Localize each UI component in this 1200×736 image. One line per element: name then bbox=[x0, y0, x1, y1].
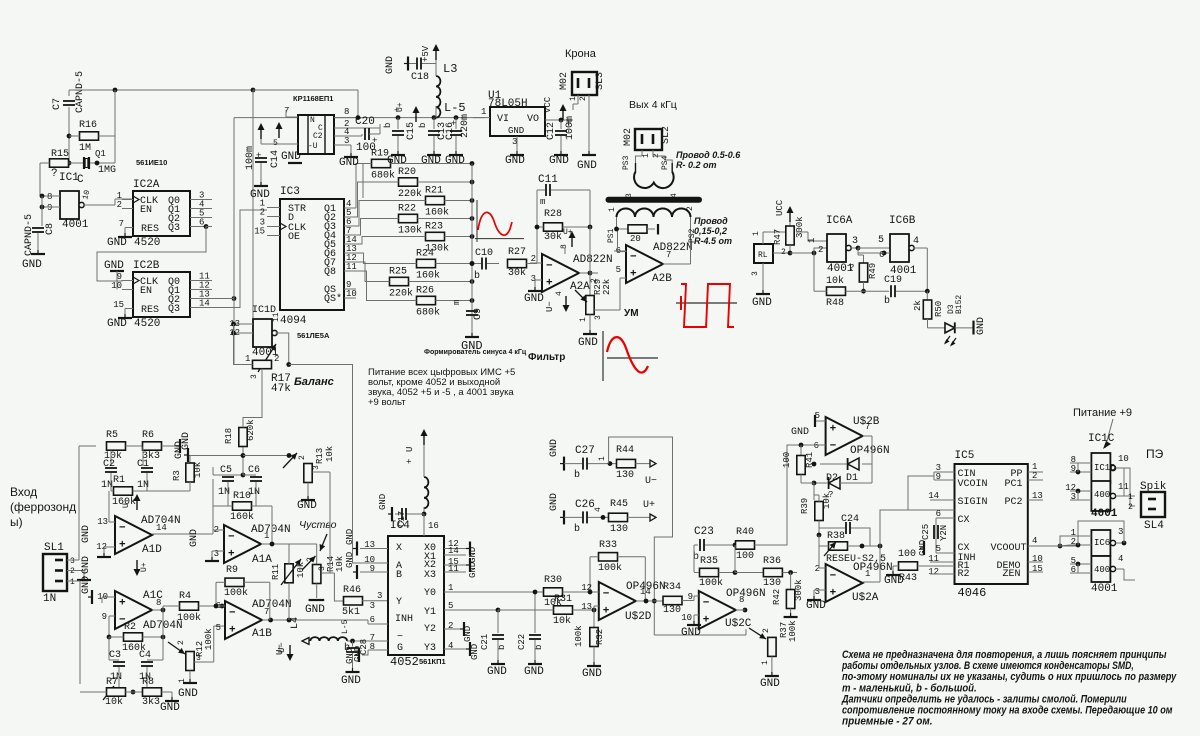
svg-text:2: 2 bbox=[70, 567, 75, 576]
svg-text:GND: GND bbox=[181, 432, 192, 450]
svg-text:VCC: VCC bbox=[543, 96, 553, 113]
svg-text:4: 4 bbox=[1118, 554, 1123, 564]
svg-text:IC1C: IC1C bbox=[1088, 433, 1115, 445]
svg-text:U$2C: U$2C bbox=[725, 618, 752, 630]
svg-text:10k: 10k bbox=[296, 562, 306, 578]
svg-text:R23: R23 bbox=[425, 222, 443, 233]
svg-text:Фильтр: Фильтр bbox=[528, 352, 565, 363]
svg-text:IC6B: IC6B bbox=[889, 215, 916, 227]
svg-text:5: 5 bbox=[616, 265, 621, 275]
svg-text:4052: 4052 bbox=[390, 655, 419, 669]
svg-text:L3: L3 bbox=[443, 62, 457, 76]
svg-text:−: − bbox=[397, 632, 403, 643]
svg-text:1: 1 bbox=[752, 231, 761, 236]
svg-text:C5: C5 bbox=[220, 465, 232, 476]
svg-text:3: 3 bbox=[625, 193, 634, 198]
svg-text:УМ: УМ bbox=[624, 308, 639, 319]
svg-text:D2: D2 bbox=[826, 473, 838, 484]
svg-text:C3: C3 bbox=[109, 650, 121, 661]
svg-text:EN: EN bbox=[140, 286, 152, 297]
svg-text:2: 2 bbox=[762, 628, 771, 633]
svg-text:КР1168ЕП1: КР1168ЕП1 bbox=[293, 94, 333, 103]
svg-text:100k: 100k bbox=[574, 625, 584, 647]
svg-text:Питание +9: Питание +9 bbox=[1073, 407, 1132, 419]
svg-text:GND: GND bbox=[470, 644, 480, 660]
svg-text:10k: 10k bbox=[105, 696, 123, 708]
svg-text:GND: GND bbox=[463, 626, 473, 642]
svg-text:R5: R5 bbox=[106, 430, 118, 441]
svg-text:GND: GND bbox=[160, 702, 180, 714]
svg-text:+: + bbox=[603, 605, 610, 617]
svg-text:?: ? bbox=[51, 168, 58, 180]
svg-text:300k: 300k bbox=[794, 579, 804, 601]
svg-text:+: + bbox=[256, 151, 261, 161]
svg-text:R3: R3 bbox=[172, 470, 182, 481]
svg-text:3: 3 bbox=[370, 601, 375, 611]
svg-text:C2: C2 bbox=[313, 132, 323, 141]
svg-text:R48: R48 bbox=[826, 298, 844, 309]
svg-text:C26: C26 bbox=[575, 499, 595, 511]
svg-text:U−: U− bbox=[645, 476, 657, 487]
svg-text:2: 2 bbox=[117, 200, 122, 210]
svg-text:Чуство: Чуство bbox=[299, 519, 337, 531]
svg-text:R27: R27 bbox=[508, 247, 526, 258]
svg-text:RES: RES bbox=[141, 305, 159, 316]
svg-text:GND: GND bbox=[421, 155, 441, 167]
svg-text:3: 3 bbox=[751, 271, 760, 276]
svg-text:C27: C27 bbox=[575, 445, 595, 457]
svg-text:GND: GND bbox=[752, 297, 772, 309]
svg-text:R35: R35 bbox=[700, 556, 718, 567]
svg-text:GND: GND bbox=[250, 189, 270, 201]
svg-text:QS*: QS* bbox=[324, 293, 342, 305]
svg-text:?: ? bbox=[849, 263, 854, 273]
svg-text:5: 5 bbox=[216, 623, 221, 633]
svg-text:C2: C2 bbox=[103, 459, 115, 470]
svg-text:R18: R18 bbox=[224, 428, 234, 444]
svg-text:4046: 4046 bbox=[958, 586, 987, 600]
svg-text:30k: 30k bbox=[508, 267, 526, 279]
svg-text:1: 1 bbox=[579, 317, 588, 322]
svg-text:GND: GND bbox=[81, 556, 92, 574]
svg-text:2: 2 bbox=[1128, 503, 1133, 512]
svg-text:C21: C21 bbox=[480, 634, 490, 650]
svg-text:GND: GND bbox=[345, 529, 355, 545]
svg-text:N: N bbox=[310, 116, 315, 125]
svg-text:1: 1 bbox=[807, 238, 817, 243]
svg-text:2: 2 bbox=[298, 455, 307, 460]
svg-text:4001: 4001 bbox=[62, 219, 89, 231]
svg-text:b: b bbox=[474, 270, 480, 282]
svg-text:4: 4 bbox=[555, 291, 564, 296]
svg-text:b: b bbox=[574, 469, 580, 481]
svg-text:100k: 100k bbox=[598, 562, 622, 574]
svg-text:13: 13 bbox=[581, 602, 592, 612]
svg-text:400: 400 bbox=[1094, 565, 1110, 575]
svg-text:Вых 4 кГц: Вых 4 кГц bbox=[629, 99, 677, 111]
svg-text:AD822N: AD822N bbox=[653, 242, 693, 254]
svg-text:561КП1: 561КП1 bbox=[419, 657, 446, 666]
svg-text:ZEN: ZEN bbox=[1003, 569, 1021, 580]
svg-text:CAPND-5: CAPND-5 bbox=[24, 214, 35, 256]
svg-text:10: 10 bbox=[1118, 454, 1129, 464]
svg-text:C25: C25 bbox=[921, 524, 931, 540]
svg-text:+: + bbox=[830, 587, 837, 599]
svg-text:Провод: Провод bbox=[694, 216, 728, 226]
svg-text:C9: C9 bbox=[473, 308, 484, 320]
svg-text:220k: 220k bbox=[389, 288, 413, 300]
svg-text:22k: 22k bbox=[602, 279, 612, 295]
svg-text:GND: GND bbox=[305, 604, 325, 616]
svg-text:−: − bbox=[229, 608, 236, 620]
svg-text:b: b bbox=[884, 295, 890, 307]
svg-text:R36: R36 bbox=[763, 556, 781, 567]
svg-text:30k: 30k bbox=[544, 231, 562, 243]
svg-text:B152: B152 bbox=[955, 295, 964, 314]
svg-text:GND: GND bbox=[468, 547, 478, 563]
svg-text:561ИЕ10: 561ИЕ10 bbox=[136, 158, 167, 167]
svg-text:m: m bbox=[452, 300, 462, 305]
svg-text:R46: R46 bbox=[343, 585, 361, 596]
svg-text:GND: GND bbox=[385, 56, 396, 74]
svg-text:1: 1 bbox=[569, 96, 578, 101]
svg-text:10: 10 bbox=[681, 613, 692, 623]
svg-text:IC6: IC6 bbox=[1094, 538, 1110, 548]
svg-text:3: 3 bbox=[594, 315, 603, 320]
svg-text:R7: R7 bbox=[106, 677, 118, 688]
svg-text:R31: R31 bbox=[554, 594, 572, 605]
svg-text:R33: R33 bbox=[599, 540, 617, 551]
svg-text:9: 9 bbox=[102, 612, 107, 622]
svg-text:Вход: Вход bbox=[10, 485, 37, 499]
svg-text:1M: 1M bbox=[79, 143, 91, 154]
svg-text:IC5: IC5 bbox=[955, 450, 975, 462]
svg-text:2: 2 bbox=[818, 245, 823, 255]
svg-text:1: 1 bbox=[598, 456, 607, 461]
svg-text:100k: 100k bbox=[788, 620, 798, 642]
svg-text:R4: R4 bbox=[179, 591, 191, 602]
svg-text:1N: 1N bbox=[43, 593, 56, 605]
svg-text:A2B: A2B bbox=[652, 273, 672, 285]
svg-text:8: 8 bbox=[344, 107, 349, 117]
svg-text:2: 2 bbox=[306, 557, 315, 562]
svg-text:U+: U+ bbox=[396, 102, 405, 112]
svg-text:U+: U+ bbox=[140, 562, 149, 572]
svg-text:16: 16 bbox=[428, 521, 439, 531]
svg-text:SL2: SL2 bbox=[661, 126, 672, 144]
svg-text:+: + bbox=[546, 277, 553, 289]
svg-text:C8: C8 bbox=[45, 223, 56, 235]
svg-text:−: − bbox=[703, 598, 710, 610]
svg-text:2: 2 bbox=[590, 278, 599, 283]
svg-text:R- 0.2 от: R- 0.2 от bbox=[676, 160, 717, 170]
svg-text:A1A: A1A bbox=[252, 554, 272, 566]
svg-text:VI: VI bbox=[497, 114, 509, 125]
svg-text:−: − bbox=[630, 252, 637, 264]
svg-text:C24: C24 bbox=[841, 514, 859, 525]
svg-text:12: 12 bbox=[928, 567, 939, 577]
svg-text:Q1: Q1 bbox=[95, 149, 106, 159]
svg-text:14: 14 bbox=[640, 587, 651, 597]
svg-text:0,15-0,2: 0,15-0,2 bbox=[694, 226, 727, 236]
svg-text:2: 2 bbox=[579, 96, 588, 101]
svg-text:680k: 680k bbox=[416, 307, 440, 319]
svg-text:3: 3 bbox=[1118, 527, 1123, 537]
svg-text:160k: 160k bbox=[230, 511, 254, 523]
svg-text:C17: C17 bbox=[397, 511, 407, 527]
svg-text:GND: GND bbox=[378, 494, 388, 510]
svg-text:U−: U− bbox=[277, 642, 287, 653]
svg-text:VCOIN: VCOIN bbox=[958, 479, 988, 490]
svg-text:1: 1 bbox=[245, 354, 250, 364]
svg-text:IC3: IC3 bbox=[280, 186, 300, 198]
svg-text:7: 7 bbox=[119, 219, 124, 229]
svg-text:2: 2 bbox=[686, 206, 695, 211]
svg-text:13: 13 bbox=[97, 517, 108, 527]
svg-text:C11: C11 bbox=[538, 174, 558, 186]
svg-text:U−: U− bbox=[545, 301, 555, 312]
svg-text:160k: 160k bbox=[416, 270, 440, 282]
svg-text:3: 3 bbox=[250, 374, 259, 379]
svg-text:R45: R45 bbox=[610, 499, 628, 510]
svg-text:R2: R2 bbox=[124, 622, 136, 633]
svg-text:A1B: A1B bbox=[252, 628, 272, 640]
svg-text:IC6A: IC6A bbox=[826, 215, 853, 227]
svg-text:R2: R2 bbox=[958, 569, 970, 580]
svg-text:−: − bbox=[603, 589, 610, 601]
svg-text:130: 130 bbox=[663, 605, 681, 616]
svg-text:C: C bbox=[77, 174, 84, 186]
svg-text:10k: 10k bbox=[325, 446, 335, 462]
svg-text:1: 1 bbox=[1128, 493, 1133, 502]
svg-text:Q3: Q3 bbox=[168, 304, 180, 315]
svg-text:OP496N: OP496N bbox=[726, 588, 766, 600]
svg-text:GND: GND bbox=[487, 666, 507, 678]
svg-text:2: 2 bbox=[177, 640, 186, 645]
svg-text:+: + bbox=[119, 539, 126, 551]
svg-text:C22: C22 bbox=[517, 634, 527, 650]
svg-text:приемные - 27 ом.: приемные - 27 ом. bbox=[842, 716, 933, 728]
svg-text:1: 1 bbox=[865, 569, 870, 579]
svg-text:AD704N: AD704N bbox=[251, 524, 291, 536]
svg-text:VO: VO bbox=[527, 114, 539, 125]
svg-text:100m: 100m bbox=[245, 146, 256, 170]
svg-text:M02: M02 bbox=[623, 128, 634, 146]
svg-text:R10: R10 bbox=[233, 491, 251, 502]
svg-text:GND: GND bbox=[582, 668, 602, 680]
svg-text:SIGIN: SIGIN bbox=[958, 497, 988, 508]
svg-text:IC2A: IC2A bbox=[133, 179, 160, 191]
svg-text:R38: R38 bbox=[827, 531, 845, 542]
svg-text:INH: INH bbox=[395, 614, 413, 625]
svg-text:100k: 100k bbox=[224, 587, 248, 599]
svg-text:L-5: L-5 bbox=[444, 101, 466, 115]
svg-text:SL1: SL1 bbox=[44, 542, 64, 554]
svg-text:Y3: Y3 bbox=[424, 643, 436, 654]
svg-text:561ЛЕ5А: 561ЛЕ5А bbox=[297, 331, 330, 340]
svg-text:G: G bbox=[397, 643, 403, 654]
svg-text:IC2B: IC2B bbox=[133, 260, 160, 272]
svg-text:GND: GND bbox=[806, 600, 826, 612]
svg-text:R40: R40 bbox=[736, 527, 754, 538]
svg-text:+: + bbox=[228, 548, 235, 560]
svg-text:C23: C23 bbox=[694, 526, 714, 538]
svg-text:GND: GND bbox=[445, 155, 465, 167]
svg-text:R49: R49 bbox=[868, 263, 878, 279]
svg-text:C16: C16 bbox=[445, 122, 456, 140]
svg-text:R21: R21 bbox=[425, 186, 443, 197]
svg-text:47k: 47k bbox=[271, 383, 291, 395]
svg-text:GND: GND bbox=[760, 678, 780, 690]
svg-text:R25: R25 bbox=[389, 267, 407, 278]
svg-text:GND: GND bbox=[976, 317, 987, 335]
svg-text:3: 3 bbox=[815, 587, 820, 597]
svg-text:R24: R24 bbox=[416, 249, 434, 260]
svg-text:14: 14 bbox=[199, 299, 210, 309]
svg-text:b: b bbox=[383, 123, 393, 128]
svg-text:C4: C4 bbox=[139, 650, 151, 661]
svg-text:Формирователь синуса 4 кГц: Формирователь синуса 4 кГц bbox=[424, 349, 527, 356]
svg-text:1: 1 bbox=[264, 531, 269, 541]
svg-text:3: 3 bbox=[70, 557, 75, 566]
svg-text:RL: RL bbox=[758, 251, 768, 260]
svg-text:4: 4 bbox=[594, 507, 603, 512]
svg-text:GND: GND bbox=[339, 157, 359, 169]
svg-text:100: 100 bbox=[898, 549, 916, 560]
svg-text:GND: GND bbox=[81, 576, 92, 594]
svg-text:7: 7 bbox=[264, 607, 269, 617]
svg-text:PS3: PS3 bbox=[622, 155, 631, 170]
svg-text:Крона: Крона bbox=[565, 48, 597, 60]
svg-text:7: 7 bbox=[865, 422, 870, 432]
svg-text:b: b bbox=[418, 123, 428, 128]
svg-text:B: B bbox=[396, 570, 402, 581]
svg-text:78L05H: 78L05H bbox=[488, 98, 528, 110]
svg-text:GND: GND bbox=[353, 646, 363, 662]
svg-text:AD704N: AD704N bbox=[252, 599, 292, 611]
svg-text:20: 20 bbox=[630, 234, 641, 244]
svg-text:R30: R30 bbox=[544, 575, 562, 586]
svg-text:CX: CX bbox=[958, 515, 970, 526]
svg-text:ПЭ: ПЭ bbox=[1146, 447, 1164, 461]
svg-text:10k: 10k bbox=[822, 493, 832, 509]
svg-text:U+: U+ bbox=[643, 500, 655, 511]
svg-text:GND: GND bbox=[505, 155, 525, 167]
svg-text:10k: 10k bbox=[193, 462, 203, 478]
svg-text:R-4.5 от: R-4.5 от bbox=[694, 236, 732, 246]
svg-text:10k: 10k bbox=[553, 615, 571, 627]
svg-text:R50: R50 bbox=[934, 301, 944, 317]
svg-text:1: 1 bbox=[642, 153, 651, 158]
svg-text:+: + bbox=[630, 268, 637, 280]
svg-text:X3: X3 bbox=[424, 570, 436, 581]
svg-text:8: 8 bbox=[47, 192, 52, 202]
svg-text:C6: C6 bbox=[248, 465, 260, 476]
svg-text:620k: 620k bbox=[246, 419, 256, 441]
svg-text:Баланс: Баланс bbox=[294, 376, 334, 388]
svg-text:−: − bbox=[830, 440, 837, 452]
svg-text:GND: GND bbox=[578, 337, 598, 349]
svg-text:R47: R47 bbox=[773, 229, 783, 245]
svg-text:M02: M02 bbox=[559, 72, 570, 90]
svg-text:VCOOUT: VCOOUT bbox=[991, 543, 1027, 554]
svg-text:m: m bbox=[540, 197, 545, 207]
svg-text:220k: 220k bbox=[398, 188, 422, 200]
svg-text:UCC: UCC bbox=[775, 199, 785, 216]
svg-text:4001: 4001 bbox=[1091, 508, 1118, 520]
svg-text:Q8: Q8 bbox=[324, 267, 336, 278]
svg-text:2: 2 bbox=[260, 208, 265, 218]
svg-text:Y: Y bbox=[396, 597, 402, 608]
svg-text:2: 2 bbox=[274, 354, 279, 364]
svg-text:130: 130 bbox=[610, 524, 628, 535]
svg-text:130k: 130k bbox=[398, 225, 422, 237]
svg-text:AD822N: AD822N bbox=[573, 254, 613, 266]
svg-text:C20: C20 bbox=[355, 116, 375, 128]
svg-text:R8: R8 bbox=[142, 677, 154, 688]
svg-text:1: 1 bbox=[761, 660, 770, 665]
svg-text:GND: GND bbox=[468, 562, 478, 578]
svg-text:R11: R11 bbox=[271, 564, 281, 580]
svg-text:ы): ы) bbox=[10, 515, 23, 529]
svg-text:2k: 2k bbox=[913, 300, 923, 311]
svg-text:L4: L4 bbox=[290, 617, 301, 629]
svg-text:+9 вольт: +9 вольт bbox=[368, 397, 406, 408]
svg-text:R34: R34 bbox=[663, 582, 681, 593]
svg-text:11: 11 bbox=[1118, 482, 1129, 492]
svg-text:6: 6 bbox=[814, 441, 819, 451]
svg-text:GND: GND bbox=[508, 126, 524, 136]
svg-text:Провод 0.5-0.6: Провод 0.5-0.6 bbox=[676, 150, 741, 160]
svg-text:OP496N: OP496N bbox=[850, 445, 890, 457]
svg-text:PS4: PS4 bbox=[661, 155, 670, 170]
svg-text:A1D: A1D bbox=[142, 544, 162, 556]
svg-text:4520: 4520 bbox=[134, 318, 160, 330]
svg-text:3: 3 bbox=[312, 465, 321, 470]
svg-text:X: X bbox=[396, 543, 402, 554]
svg-text:10k: 10k bbox=[335, 556, 345, 572]
svg-text:3: 3 bbox=[318, 566, 327, 571]
svg-text:R22: R22 bbox=[398, 204, 416, 215]
svg-text:8: 8 bbox=[156, 598, 161, 608]
svg-text:U$2D: U$2D bbox=[625, 611, 652, 623]
svg-text:130: 130 bbox=[616, 470, 634, 481]
svg-text:A2A: A2A bbox=[570, 281, 590, 293]
svg-text:GND: GND bbox=[577, 160, 597, 172]
svg-text:GND: GND bbox=[22, 259, 42, 271]
svg-text:10: 10 bbox=[346, 289, 357, 299]
svg-text:GND: GND bbox=[884, 575, 904, 587]
svg-text:SL4: SL4 bbox=[1144, 520, 1164, 532]
svg-text:D1: D1 bbox=[846, 473, 858, 484]
svg-text:14: 14 bbox=[156, 523, 167, 533]
svg-text:R26: R26 bbox=[416, 286, 434, 297]
svg-text:R39: R39 bbox=[800, 498, 810, 514]
svg-text:100: 100 bbox=[356, 142, 376, 154]
svg-text:C15: C15 bbox=[406, 122, 417, 140]
svg-text:4094: 4094 bbox=[280, 315, 307, 327]
svg-text:GND: GND bbox=[549, 155, 569, 167]
svg-text:+: + bbox=[119, 598, 126, 610]
svg-text:R28: R28 bbox=[544, 209, 562, 220]
svg-text:5: 5 bbox=[878, 235, 884, 246]
svg-text:100: 100 bbox=[782, 452, 792, 468]
svg-text:160k: 160k bbox=[425, 207, 449, 219]
svg-text:Q3: Q3 bbox=[168, 223, 180, 234]
svg-text:b: b bbox=[574, 523, 580, 535]
svg-text:Y2: Y2 bbox=[424, 624, 436, 635]
svg-text:+: + bbox=[830, 424, 837, 436]
